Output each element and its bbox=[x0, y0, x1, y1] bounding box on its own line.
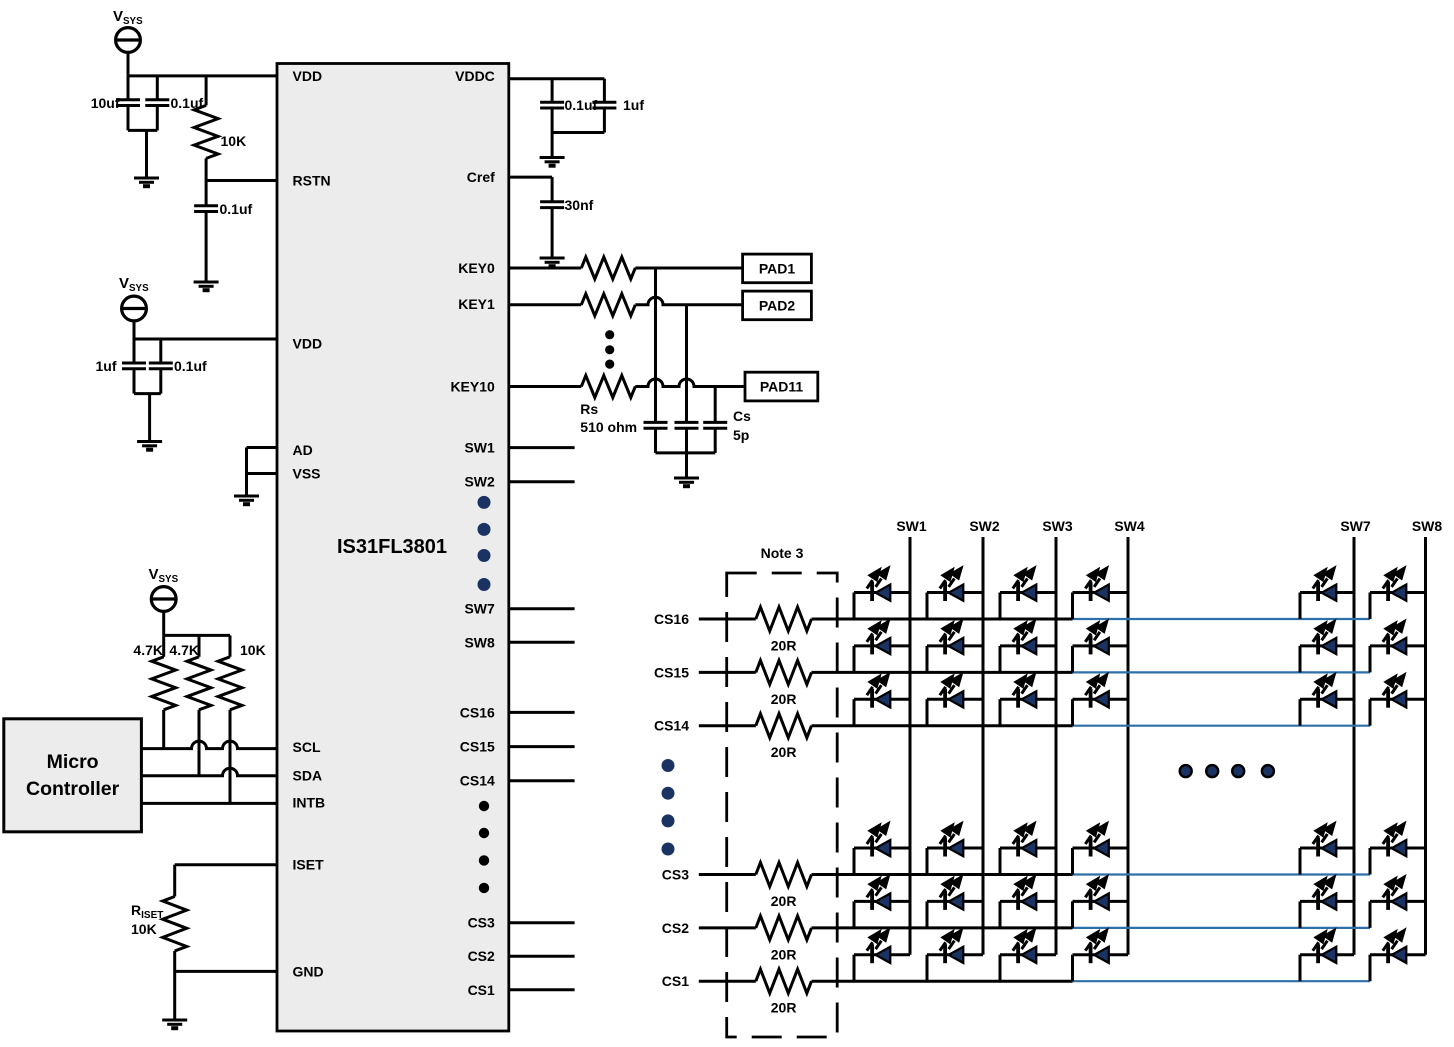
capacitor Cs3 5p bbox=[703, 387, 751, 453]
resistor Rs2 510ohm bbox=[581, 294, 635, 316]
wire stub CS3 bbox=[509, 921, 575, 924]
wire stub SW8 bbox=[509, 641, 575, 644]
resistor R4 10K bbox=[218, 635, 266, 803]
svg-text:4.7K: 4.7K bbox=[133, 642, 163, 658]
wire VDDC cap bottoms bbox=[552, 133, 604, 158]
wire stub CS1 bbox=[509, 988, 575, 991]
svg-text:Cref: Cref bbox=[467, 169, 495, 185]
svg-text:PAD1: PAD1 bbox=[759, 261, 796, 277]
ground (C3) bbox=[194, 282, 219, 290]
svg-text:SW3: SW3 bbox=[1042, 518, 1073, 534]
LED CS15/SW3 bbox=[1000, 622, 1056, 673]
row label CS16 bbox=[654, 611, 689, 627]
svg-text:SCL: SCL bbox=[293, 739, 321, 755]
resistor 20R (CS2) bbox=[756, 916, 812, 963]
pin label VSS bbox=[293, 466, 321, 482]
resistor Rs1 510ohm bbox=[581, 257, 635, 279]
pin label SW8 bbox=[464, 634, 495, 650]
PAD1 box bbox=[743, 254, 812, 283]
Note 3 label bbox=[761, 545, 804, 561]
svg-text:RSTN: RSTN bbox=[293, 173, 331, 189]
wire SDA bbox=[141, 768, 277, 775]
wire row CS15 (blue net) bbox=[1073, 671, 1371, 673]
svg-text:SW4: SW4 bbox=[1114, 518, 1145, 534]
svg-text:PAD2: PAD2 bbox=[759, 298, 796, 314]
LED CS1/SW3 bbox=[1000, 931, 1056, 982]
ellipsis dots SW5..SW6 (matrix middle) bbox=[1180, 765, 1274, 777]
ground (RISET) bbox=[162, 1020, 187, 1028]
ground (C4/C5) bbox=[137, 442, 162, 450]
IC U1 IS31FL3801 body bbox=[277, 64, 509, 1032]
LED CS1/SW1 bbox=[854, 931, 910, 982]
LED CS1/SW2 bbox=[927, 931, 983, 982]
capacitor C8 30nf bbox=[540, 197, 594, 258]
wire RISET to GND bbox=[175, 951, 277, 1020]
svg-text:KEY10: KEY10 bbox=[450, 379, 495, 395]
svg-text:CS15: CS15 bbox=[460, 739, 495, 755]
capacitor C4 1uf bbox=[96, 339, 147, 394]
wire row CS1 (left) bbox=[699, 980, 756, 983]
capacitor C7 1uf (VDDC) bbox=[592, 79, 644, 133]
ground (AD/VSS) bbox=[234, 496, 259, 504]
ellipsis dots CS rows (matrix left) bbox=[662, 759, 675, 856]
svg-text:SW7: SW7 bbox=[1340, 518, 1371, 534]
svg-text:CS3: CS3 bbox=[662, 867, 689, 883]
wire KEY10 bbox=[509, 385, 582, 388]
ground (C8) bbox=[540, 258, 565, 266]
LED CS15/SW1 bbox=[854, 622, 910, 673]
LED CS2/SW8 bbox=[1370, 877, 1426, 928]
svg-text:AD: AD bbox=[293, 442, 313, 458]
LED CS15/SW2 bbox=[927, 622, 983, 673]
wire row CS14 (right) bbox=[812, 724, 1073, 727]
svg-text:Micro: Micro bbox=[47, 751, 99, 773]
svg-text:10K: 10K bbox=[221, 133, 247, 149]
LED CS16/SW8 bbox=[1370, 568, 1426, 619]
svg-text:VSYS: VSYS bbox=[149, 566, 179, 585]
wire SCL bbox=[141, 741, 277, 749]
wire KEY10 to PAD11 (hops) bbox=[635, 379, 745, 386]
column label SW3 bbox=[1042, 518, 1073, 534]
wire VDDC bbox=[509, 77, 605, 80]
svg-text:CS16: CS16 bbox=[654, 611, 689, 627]
wire row CS2 (right) bbox=[812, 926, 1073, 929]
wire RSTN bbox=[206, 179, 277, 182]
svg-text:CS1: CS1 bbox=[468, 982, 495, 998]
svg-text:CS15: CS15 bbox=[654, 664, 689, 680]
wire stub CS15 bbox=[509, 745, 575, 748]
wire VSYS to VDD pin bbox=[128, 52, 277, 76]
wire cap bottoms join 2 bbox=[134, 394, 161, 442]
row label CS2 bbox=[662, 920, 689, 936]
svg-text:5p: 5p bbox=[733, 427, 749, 443]
LED CS14/SW1 bbox=[854, 675, 910, 726]
LED CS2/SW3 bbox=[1000, 877, 1056, 928]
wire column SW7 bbox=[1353, 537, 1356, 955]
LED CS3/SW8 bbox=[1370, 824, 1426, 875]
ellipsis dots CS13..CS4 bbox=[479, 801, 489, 893]
row label CS1 bbox=[662, 973, 689, 989]
svg-text:SW2: SW2 bbox=[464, 474, 495, 490]
svg-text:30nf: 30nf bbox=[565, 197, 594, 213]
wire INTB bbox=[141, 802, 277, 805]
pin label CS2 bbox=[468, 948, 495, 964]
svg-text:VSYS: VSYS bbox=[113, 8, 143, 27]
svg-text:Rs: Rs bbox=[580, 401, 598, 417]
svg-text:VDD: VDD bbox=[293, 336, 323, 352]
capacitor Cs1 5p bbox=[644, 268, 668, 453]
LED CS1/SW8 bbox=[1370, 931, 1426, 982]
svg-text:KEY1: KEY1 bbox=[458, 296, 495, 312]
svg-text:Cs: Cs bbox=[733, 408, 751, 424]
svg-text:0.1uf: 0.1uf bbox=[220, 201, 253, 217]
LED CS16/SW3 bbox=[1000, 568, 1056, 619]
resistor R2 4.7K bbox=[133, 635, 175, 748]
wire row CS3 (right) bbox=[812, 873, 1073, 876]
column label SW2 bbox=[969, 518, 1000, 534]
LED CS14/SW7 bbox=[1300, 675, 1354, 726]
LED CS16/SW2 bbox=[927, 568, 983, 619]
svg-text:10K: 10K bbox=[131, 921, 157, 937]
svg-text:SW1: SW1 bbox=[464, 440, 495, 456]
wire row CS1 (right) bbox=[812, 980, 1073, 983]
column label SW7 bbox=[1340, 518, 1371, 534]
LED CS1/SW4 bbox=[1073, 931, 1129, 982]
wire stub CS16 bbox=[509, 711, 575, 714]
LED CS14/SW3 bbox=[1000, 675, 1056, 726]
svg-text:Note 3: Note 3 bbox=[761, 545, 804, 561]
pin label Cref bbox=[467, 169, 495, 185]
svg-text:SW2: SW2 bbox=[969, 518, 1000, 534]
LED CS3/SW3 bbox=[1000, 824, 1056, 875]
LED CS1/SW7 bbox=[1300, 931, 1354, 982]
wire row CS1 (blue net) bbox=[1073, 980, 1371, 982]
pin label ISET bbox=[293, 857, 325, 873]
wire row CS16 (right) bbox=[812, 618, 1073, 621]
PAD11 box bbox=[745, 372, 818, 401]
svg-text:CS3: CS3 bbox=[468, 915, 495, 931]
svg-text:20R: 20R bbox=[771, 1000, 797, 1016]
svg-text:0.1uf: 0.1uf bbox=[565, 97, 598, 113]
PAD2 box bbox=[743, 291, 812, 320]
wire KEY1 bbox=[509, 303, 582, 306]
svg-text:20R: 20R bbox=[771, 691, 797, 707]
svg-text:ISET: ISET bbox=[293, 857, 325, 873]
wire column SW2 bbox=[982, 537, 985, 955]
svg-text:4.7K: 4.7K bbox=[169, 642, 199, 658]
wire AD bbox=[247, 446, 278, 449]
pin label AD bbox=[293, 442, 313, 458]
svg-text:SW8: SW8 bbox=[464, 634, 495, 650]
pin label CS16 bbox=[460, 704, 495, 720]
dashed box Note 3 bbox=[727, 573, 838, 1037]
svg-text:1uf: 1uf bbox=[623, 97, 644, 113]
svg-text:20R: 20R bbox=[771, 638, 797, 654]
svg-text:VDD: VDD bbox=[293, 68, 323, 84]
wire row CS16 (blue net) bbox=[1073, 618, 1371, 620]
LED CS14/SW8 bbox=[1370, 675, 1426, 726]
svg-text:CS2: CS2 bbox=[468, 948, 495, 964]
LED CS14/SW4 bbox=[1073, 675, 1129, 726]
pin label RSTN bbox=[293, 173, 331, 189]
resistor R3 4.7K bbox=[169, 635, 211, 775]
wire VSYS to VDD pin 2 bbox=[134, 321, 277, 340]
wire row CS15 (left) bbox=[699, 671, 756, 674]
ground (C1/C2) bbox=[134, 178, 159, 186]
resistor 20R (CS1) bbox=[756, 969, 812, 1016]
wire KEY0 to PAD1 bbox=[635, 267, 742, 270]
svg-text:IS31FL3801: IS31FL3801 bbox=[337, 536, 447, 558]
LED CS3/SW7 bbox=[1300, 824, 1354, 875]
column label SW4 bbox=[1114, 518, 1145, 534]
pin label KEY10 bbox=[450, 379, 495, 395]
wire cap bottoms join bbox=[128, 130, 157, 178]
LED CS15/SW7 bbox=[1300, 622, 1354, 673]
wire row CS14 (blue net) bbox=[1073, 725, 1371, 727]
wire row CS14 (left) bbox=[699, 724, 756, 727]
pin label KEY1 bbox=[458, 296, 495, 312]
pin label CS1 bbox=[468, 982, 495, 998]
wire stub SW2 bbox=[509, 480, 575, 483]
Micro Controller box bbox=[4, 719, 142, 832]
svg-text:VDDC: VDDC bbox=[455, 68, 495, 84]
resistor Rs3 510ohm bbox=[580, 376, 637, 436]
svg-text:CS1: CS1 bbox=[662, 973, 689, 989]
capacitor C5 0.1uf bbox=[149, 339, 207, 394]
wire Cs bottoms join bbox=[656, 453, 716, 478]
svg-text:CS14: CS14 bbox=[654, 718, 689, 734]
LED CS2/SW2 bbox=[927, 877, 983, 928]
wire stub CS14 bbox=[509, 779, 575, 782]
pin label VDD bbox=[293, 68, 323, 84]
capacitor C1 10uf bbox=[91, 76, 140, 130]
LED CS2/SW4 bbox=[1073, 877, 1129, 928]
LED CS3/SW1 bbox=[854, 824, 910, 875]
wire KEY0 bbox=[509, 267, 582, 270]
wire column SW4 bbox=[1127, 537, 1130, 955]
pin label SW1 bbox=[464, 440, 495, 456]
pin label SDA bbox=[293, 768, 323, 784]
column label SW8 bbox=[1412, 518, 1443, 534]
svg-text:Controller: Controller bbox=[26, 778, 120, 800]
LED CS3/SW4 bbox=[1073, 824, 1129, 875]
LED CS2/SW1 bbox=[854, 877, 910, 928]
ellipsis dots KEY2..KEY9 bbox=[605, 330, 614, 369]
pin label KEY0 bbox=[458, 260, 495, 276]
svg-text:PAD11: PAD11 bbox=[760, 379, 804, 395]
LED CS16/SW1 bbox=[854, 568, 910, 619]
wire row CS16 (left) bbox=[699, 618, 756, 621]
pin label VDDC bbox=[455, 68, 495, 84]
wire row CS2 (left) bbox=[699, 926, 756, 929]
LED CS16/SW4 bbox=[1073, 568, 1129, 619]
svg-text:SDA: SDA bbox=[293, 768, 323, 784]
capacitor C6 0.1uf (VDDC) bbox=[540, 79, 597, 133]
wire stub SW7 bbox=[509, 607, 575, 610]
column label SW1 bbox=[896, 518, 927, 534]
svg-text:INTB: INTB bbox=[293, 795, 326, 811]
wire row CS2 (blue net) bbox=[1073, 927, 1371, 929]
svg-text:0.1uf: 0.1uf bbox=[174, 358, 207, 374]
svg-text:20R: 20R bbox=[771, 893, 797, 909]
svg-text:20R: 20R bbox=[771, 946, 797, 962]
wire column SW1 bbox=[909, 537, 912, 955]
wire stub SW1 bbox=[509, 446, 575, 449]
svg-text:KEY0: KEY0 bbox=[458, 260, 495, 276]
row label CS14 bbox=[654, 718, 689, 734]
wire VSYS bus bbox=[164, 611, 230, 635]
resistor R5 RISET 10K bbox=[131, 897, 187, 951]
resistor 20R (CS14) bbox=[756, 714, 812, 761]
power VSYS (third) bbox=[149, 566, 179, 611]
svg-text:RISET: RISET bbox=[131, 902, 163, 921]
wire Cref bbox=[509, 177, 552, 202]
LED CS3/SW2 bbox=[927, 824, 983, 875]
row label CS15 bbox=[654, 664, 689, 680]
power VSYS (second) bbox=[119, 275, 149, 321]
pin label SW7 bbox=[464, 601, 495, 617]
wire column SW8 bbox=[1424, 537, 1427, 955]
svg-text:10K: 10K bbox=[240, 642, 266, 658]
svg-text:SW7: SW7 bbox=[464, 601, 495, 617]
wire stub CS2 bbox=[509, 955, 575, 958]
wire row CS15 (right) bbox=[812, 671, 1073, 674]
svg-text:1uf: 1uf bbox=[96, 358, 117, 374]
svg-text:VSYS: VSYS bbox=[119, 275, 149, 294]
ground (Cs) bbox=[674, 478, 699, 486]
svg-text:10uf: 10uf bbox=[91, 95, 120, 111]
power VSYS (top-left) bbox=[113, 8, 143, 52]
wire KEY1 to PAD2 (hops KEY0 branch) bbox=[635, 297, 742, 305]
wire row CS3 (left) bbox=[699, 873, 756, 876]
wire row CS3 (blue net) bbox=[1073, 873, 1371, 875]
svg-text:510 ohm: 510 ohm bbox=[580, 419, 637, 435]
pin label SW2 bbox=[464, 474, 495, 490]
wire ISET bbox=[175, 865, 277, 897]
svg-text:CS14: CS14 bbox=[460, 773, 495, 789]
row label CS3 bbox=[662, 867, 689, 883]
pin label CS15 bbox=[460, 739, 495, 755]
LED CS15/SW8 bbox=[1370, 622, 1426, 673]
wire VSS bbox=[247, 448, 278, 497]
pin label VDD bbox=[293, 336, 323, 352]
svg-text:SW1: SW1 bbox=[896, 518, 927, 534]
pin label INTB bbox=[293, 795, 326, 811]
LED CS2/SW7 bbox=[1300, 877, 1354, 928]
resistor 20R (CS3) bbox=[756, 863, 812, 910]
svg-text:20R: 20R bbox=[771, 744, 797, 760]
svg-text:SW8: SW8 bbox=[1412, 518, 1443, 534]
capacitor Cs2 5p bbox=[675, 305, 699, 453]
LED CS15/SW4 bbox=[1073, 622, 1129, 673]
pin label GND bbox=[293, 963, 324, 979]
svg-text:CS2: CS2 bbox=[662, 920, 689, 936]
ellipsis dots SW3..SW6 bbox=[478, 496, 491, 591]
pin label CS3 bbox=[468, 915, 495, 931]
wire column SW3 bbox=[1055, 537, 1058, 955]
svg-text:CS16: CS16 bbox=[460, 704, 495, 720]
resistor R1 10K bbox=[194, 76, 246, 181]
ground (VDDC caps) bbox=[540, 158, 565, 166]
svg-text:GND: GND bbox=[293, 963, 324, 979]
LED CS16/SW7 bbox=[1300, 568, 1354, 619]
LED CS14/SW2 bbox=[927, 675, 983, 726]
resistor 20R (CS15) bbox=[756, 660, 812, 707]
resistor 20R (CS16) bbox=[756, 607, 812, 654]
pin label SCL bbox=[293, 739, 321, 755]
capacitor C2 0.1uf bbox=[145, 76, 203, 130]
capacitor C3 0.1uf (RSTN) bbox=[194, 181, 252, 283]
pin label CS14 bbox=[460, 773, 495, 789]
svg-text:VSS: VSS bbox=[293, 466, 321, 482]
